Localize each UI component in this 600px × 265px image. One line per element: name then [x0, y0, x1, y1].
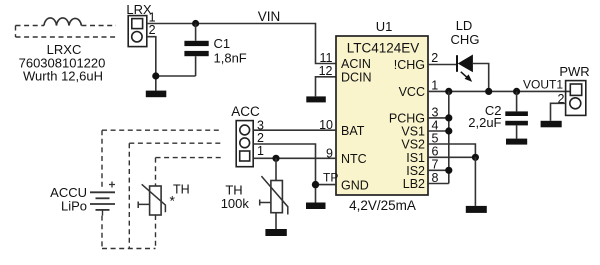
- junction VCC/VS-net: [445, 88, 452, 95]
- svg-text:LB2: LB2: [403, 177, 425, 191]
- svg-text:PWR: PWR: [559, 64, 589, 79]
- wire VIN (LRX pin1 to ACIN): [147, 24, 336, 64]
- wire ACC3 to BAT: [253, 129, 336, 131]
- ground (TP/GND): [306, 203, 326, 210]
- wire VS net to ground: [474, 157, 476, 206]
- svg-text:7: 7: [432, 158, 439, 172]
- dashed wire coil bottom: [16, 36, 117, 38]
- wire DCIN to ground: [316, 77, 337, 97]
- svg-text:DCIN: DCIN: [341, 70, 372, 84]
- wire LRX pin2 to ground: [147, 37, 196, 91]
- wire ACC2 to GND/TP: [253, 144, 315, 185]
- junction VCC/C2: [513, 88, 520, 95]
- svg-text:6: 6: [432, 145, 439, 159]
- svg-text:GND: GND: [341, 178, 369, 192]
- op-amp U1 LTC4124EV (IC body): [336, 36, 428, 195]
- svg-text:2,2uF: 2,2uF: [468, 115, 501, 130]
- LED LD CHG: [457, 55, 473, 82]
- svg-text:!CHG: !CHG: [394, 58, 425, 72]
- dashed wire battery+ to ACC3: [102, 130, 222, 189]
- svg-text:CHG: CHG: [451, 32, 480, 47]
- junction pin4: [445, 127, 452, 134]
- junction pin3: [445, 114, 452, 121]
- junction VCC/LED: [485, 88, 492, 95]
- ground (TH 100k): [265, 229, 286, 236]
- svg-text:1,8nF: 1,8nF: [214, 51, 247, 66]
- svg-text:5: 5: [432, 131, 439, 145]
- junction VIN/C1: [192, 20, 199, 27]
- wire LED to VCC: [473, 64, 489, 92]
- wire IS2 pin7: [428, 169, 449, 171]
- wire VS2 pin5: [428, 144, 475, 157]
- svg-text:12: 12: [319, 64, 333, 78]
- svg-text:U1: U1: [376, 19, 393, 34]
- dashed wire GND rail to ACC2: [129, 143, 222, 248]
- wire GND pin to TP: [316, 185, 337, 203]
- svg-text:3: 3: [432, 105, 439, 119]
- svg-text:NTC: NTC: [341, 152, 367, 166]
- capacitor C1: [184, 24, 208, 77]
- svg-text:*: *: [170, 193, 176, 209]
- dashed wire coil left: [15, 26, 17, 38]
- dashed wire bottom rail: [102, 248, 156, 250]
- svg-text:VIN: VIN: [258, 9, 281, 24]
- ground (C2): [506, 139, 527, 145]
- svg-text:LTC4124EV: LTC4124EV: [347, 41, 420, 56]
- wire IS1 pin6: [428, 156, 475, 158]
- capacitor C2: [505, 91, 528, 138]
- wire VS1 pin4: [428, 130, 449, 132]
- svg-text:1: 1: [257, 144, 264, 158]
- ground (VS/IS): [466, 206, 487, 213]
- svg-text:4,2V/25mA: 4,2V/25mA: [349, 198, 416, 213]
- inductor LRXC (receiver coil): [44, 18, 81, 26]
- connector LRX: [128, 16, 147, 47]
- svg-text:BAT: BAT: [341, 124, 365, 138]
- wire PCHG pin3: [428, 117, 449, 119]
- ground (DCIN): [306, 96, 326, 102]
- node TP (junction): [312, 181, 319, 188]
- svg-text:8: 8: [432, 171, 439, 185]
- svg-text:ACIN: ACIN: [341, 57, 371, 71]
- svg-text:ACC: ACC: [231, 104, 260, 119]
- svg-text:TH: TH: [173, 183, 190, 197]
- dashed wire coil top: [16, 25, 117, 27]
- svg-text:10: 10: [319, 118, 333, 132]
- connector ACC: [236, 121, 253, 167]
- junction ACC1/TH: [272, 155, 279, 162]
- thermistor TH 100k: [260, 158, 288, 229]
- svg-text:100k: 100k: [221, 196, 250, 211]
- svg-text:Wurth 12,6uH: Wurth 12,6uH: [23, 69, 103, 84]
- svg-text:2: 2: [149, 23, 156, 37]
- svg-text:VCC: VCC: [399, 85, 425, 99]
- wire !CHG to LED: [428, 64, 457, 66]
- svg-text:IS1: IS1: [406, 151, 425, 165]
- svg-text:4: 4: [432, 118, 439, 132]
- svg-text:VS1: VS1: [401, 125, 425, 139]
- thermistor TH* (external): [138, 184, 165, 215]
- dashed wire TH* bottom to rail: [155, 215, 157, 249]
- svg-text:1: 1: [431, 79, 438, 93]
- wire PWR2 to ground: [551, 103, 566, 121]
- svg-text:9: 9: [326, 147, 333, 161]
- battery ACCU LiPo: [90, 182, 115, 216]
- junction pin7: [445, 167, 452, 174]
- junction pin5/6: [472, 154, 479, 161]
- svg-text:VOUT1: VOUT1: [523, 77, 563, 91]
- dashed wire battery- to rail: [101, 216, 103, 249]
- svg-text:C1: C1: [214, 36, 231, 51]
- svg-text:LD: LD: [456, 18, 473, 33]
- svg-text:IS2: IS2: [406, 164, 425, 178]
- svg-text:2: 2: [431, 51, 438, 65]
- wire VCC rail to PWR: [428, 90, 570, 92]
- wire LB2 pin8: [428, 183, 449, 185]
- dashed wire TH* to ACC1: [156, 158, 223, 186]
- svg-text:VS2: VS2: [401, 138, 425, 152]
- ground (LRX/C1): [146, 91, 167, 98]
- wire VCC to VS-net vertical: [448, 91, 450, 183]
- connector PWR: [566, 81, 586, 116]
- svg-text:TP: TP: [323, 171, 338, 185]
- wire ACC1 to NTC: [253, 157, 336, 159]
- svg-text:PCHG: PCHG: [389, 111, 425, 125]
- ground (PWR): [541, 121, 562, 128]
- svg-text:LiPo: LiPo: [61, 199, 87, 214]
- svg-text:11: 11: [320, 51, 333, 65]
- junction C1/LRX2: [152, 72, 159, 79]
